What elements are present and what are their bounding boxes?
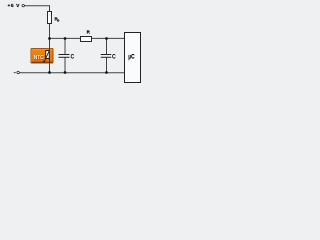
svg-text:µC: µC [128,54,134,61]
svg-text:C: C [71,54,75,60]
svg-text:+5 V: +5 V [8,3,21,9]
svg-text:NTC: NTC [34,55,45,61]
svg-text:C: C [112,54,116,60]
